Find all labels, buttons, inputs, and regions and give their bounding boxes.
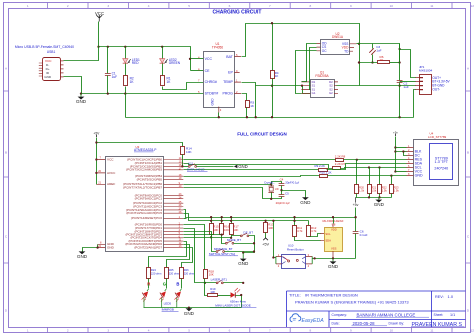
wire rail to C1 xyxy=(107,47,109,74)
junction sw bus 1 xyxy=(253,242,255,244)
junction C3 R6 row xyxy=(371,61,373,63)
svg-text:1.5k: 1.5k xyxy=(371,189,377,193)
svg-text:8: 8 xyxy=(310,4,312,8)
wire R6 to C2 col xyxy=(390,62,400,64)
switch MINNAKE_BT xyxy=(216,249,224,253)
U10 inner contacts xyxy=(283,257,298,262)
junction laser row xyxy=(204,282,206,284)
LED LED2 green xyxy=(160,59,168,64)
wire PB3 to R9 xyxy=(184,169,319,171)
wire U1 gnd to rail xyxy=(218,113,220,118)
svg-text:VCC: VCC xyxy=(107,158,114,162)
svg-text:10K: 10K xyxy=(186,150,192,154)
svg-text:VSS: VSS xyxy=(331,247,337,251)
svg-text:AREF: AREF xyxy=(107,182,115,186)
svg-text:8: 8 xyxy=(310,329,312,333)
svg-text:7: 7 xyxy=(269,4,271,8)
border row letters xyxy=(5,67,470,313)
wire lcd blk link xyxy=(396,152,407,156)
wire R11 top xyxy=(294,218,296,226)
junction +5V R14 xyxy=(95,141,97,143)
wire VSS row to C2 col xyxy=(360,44,400,63)
svg-text:USB1: USB1 xyxy=(47,50,56,54)
wire R15 top xyxy=(211,218,213,224)
junction sw1 col xyxy=(210,236,212,238)
junction R4 S1 row xyxy=(271,85,273,87)
svg-text:GND: GND xyxy=(300,200,311,205)
svg-text:MX61004: MX61004 xyxy=(419,68,433,72)
switch U10 Reset Button xyxy=(282,255,306,269)
label IMMRGB xyxy=(162,307,179,311)
junction U10 right xyxy=(313,257,315,259)
IC U3 ATMEGA328-P xyxy=(106,157,164,252)
svg-text:+5V: +5V xyxy=(93,131,100,135)
svg-text:11: 11 xyxy=(430,329,433,333)
wire VCC rail xyxy=(99,47,191,71)
wire C1 to gnd rail xyxy=(107,76,109,94)
wire S1 row xyxy=(256,85,303,87)
U10 pin bars xyxy=(276,256,312,264)
wire R15 bot stub xyxy=(211,235,213,238)
junction R4 gnd rail xyxy=(271,116,273,118)
wire +5V column xyxy=(96,138,98,185)
junction AVCC row xyxy=(95,172,97,174)
resistor R26 xyxy=(180,268,184,279)
svg-text:10K: 10K xyxy=(213,228,218,232)
label DATA_HOLD xyxy=(187,167,208,171)
svg-text:220 ohm: 220 ohm xyxy=(184,272,195,276)
wire into U1 VCC xyxy=(191,58,204,60)
svg-text:4: 4 xyxy=(148,329,150,333)
svg-text:0.1uF: 0.1uF xyxy=(360,233,368,237)
ground stub leds xyxy=(188,307,190,310)
wire R16 bot stub xyxy=(221,234,223,236)
resistor R17 xyxy=(230,224,234,235)
resistor R1 xyxy=(161,76,165,86)
svg-text:240*240: 240*240 xyxy=(434,167,448,171)
svg-text:+5v: +5v xyxy=(353,203,359,207)
wire lcd res gnd rail xyxy=(356,197,392,199)
svg-text:10K: 10K xyxy=(233,228,238,232)
U10 pin stubs xyxy=(276,256,312,264)
wire mid gnd rail xyxy=(82,93,204,95)
junction led gnd xyxy=(188,307,190,309)
wire C4 to mid xyxy=(281,186,283,195)
wire R17 bot stub xyxy=(232,235,241,238)
junction rail LED2 xyxy=(161,46,163,48)
junction lcd vcc row xyxy=(394,170,396,172)
resistor R13 xyxy=(264,223,268,233)
wire rail to LED1 xyxy=(125,47,127,59)
svg-text:5: 5 xyxy=(188,329,190,333)
wire PC6 stub xyxy=(184,218,187,220)
junction VCC pin xyxy=(189,58,191,60)
wire LED1 to R2 xyxy=(125,64,127,76)
junction VSS bat rail xyxy=(358,43,360,45)
IC U8 MLX90614ESF xyxy=(325,228,343,252)
wire C2 bottom xyxy=(399,83,401,118)
LED red element xyxy=(142,289,149,308)
svg-text:RED: RED xyxy=(132,61,139,65)
svg-text:4.7k: 4.7k xyxy=(311,229,317,233)
power flag VCC xyxy=(95,11,104,22)
switch C/F_BT xyxy=(240,233,248,237)
title block texts xyxy=(289,293,462,328)
junction laser out xyxy=(240,294,242,296)
wire B- long xyxy=(360,85,416,87)
svg-text:2.2K R7: 2.2K R7 xyxy=(335,162,346,166)
U3 right pin names xyxy=(123,157,162,249)
connector USB1 xyxy=(43,58,61,81)
wire R11 to SDA xyxy=(295,237,321,241)
svg-text:PRAVEEN KUMAR S: PRAVEEN KUMAR S xyxy=(412,322,463,328)
power flag +5v lcd rail xyxy=(353,197,359,207)
wire reset col xyxy=(274,221,276,258)
wire CS to Q1 xyxy=(310,48,317,90)
svg-text:R26: R26 xyxy=(184,268,189,272)
svg-text:EP: EP xyxy=(228,70,233,74)
junction U8 gnd xyxy=(332,257,334,259)
wire S1 to Q1 lower xyxy=(303,86,311,94)
USB1 shield comb pins xyxy=(39,63,43,76)
wire R22 column xyxy=(379,168,381,185)
wire C3 down xyxy=(372,55,374,63)
wire R14 feed xyxy=(97,143,183,147)
svg-text:PRAVEEN KUMAR S (ENGINEER TRAI: PRAVEEN KUMAR S (ENGINEER TRAINEE) +91 9… xyxy=(295,300,409,305)
svg-text:10K: 10K xyxy=(268,226,273,230)
junction R16 rail1 xyxy=(221,216,223,218)
junction VCC row xyxy=(95,158,97,160)
svg-text:TITLE:: TITLE: xyxy=(289,293,301,298)
U3 left pin numbers xyxy=(98,157,102,248)
wire rail1 end xyxy=(355,208,357,232)
svg-text:PROG: PROG xyxy=(222,92,233,96)
wire BAT rail xyxy=(242,24,360,86)
svg-text:IR THERMOMETER DESIGN: IR THERMOMETER DESIGN xyxy=(305,293,358,298)
svg-text:GND: GND xyxy=(238,261,249,266)
wire OUT- down xyxy=(414,90,416,118)
svg-text:6: 6 xyxy=(229,329,231,333)
svg-text:Sheet:: Sheet: xyxy=(434,313,444,317)
svg-text:MODE_BT: MODE_BT xyxy=(227,238,241,242)
wire R12 to SCL xyxy=(309,234,321,237)
junction sw bus 2 xyxy=(253,250,255,252)
svg-text:GND: GND xyxy=(238,164,248,169)
svg-text:2: 2 xyxy=(67,329,69,333)
wire USB VCC to rail xyxy=(64,47,99,61)
svg-text:FULL CIRCUIT DESIGN: FULL CIRCUIT DESIGN xyxy=(237,132,286,137)
junction R17 rail2 xyxy=(230,220,232,222)
svg-text:TEMP: TEMP xyxy=(223,80,233,84)
wire laser sw right xyxy=(224,282,244,284)
svg-text:LASER_BT1: LASER_BT1 xyxy=(211,278,228,282)
junction R14 PB2 xyxy=(181,165,183,167)
svg-text:C/F_BT: C/F_BT xyxy=(243,230,253,234)
svg-text:R10 2.2K: R10 2.2K xyxy=(320,171,332,175)
svg-text:1.3′ TFT: 1.3′ TFT xyxy=(435,160,449,164)
wire R1 to CHRG xyxy=(163,83,204,90)
wire laser col down xyxy=(205,283,208,296)
wire R23 bottom xyxy=(391,194,393,198)
svg-text:SCL: SCL xyxy=(325,232,331,236)
svg-text:GND: GND xyxy=(77,254,88,259)
U1 left pin names xyxy=(205,57,219,95)
wire R2 to gnd rail xyxy=(125,87,127,94)
USB1 pin names xyxy=(44,59,52,79)
svg-text:MINI LASER DOT DIODE: MINI LASER DOT DIODE xyxy=(215,303,251,307)
svg-text:1.5k: 1.5k xyxy=(359,189,365,193)
svg-text:1/1: 1/1 xyxy=(450,313,455,317)
ground flag below USB xyxy=(80,94,82,97)
svg-text:AVCC: AVCC xyxy=(107,171,116,175)
svg-text:C5: C5 xyxy=(285,191,289,195)
svg-text:GND: GND xyxy=(328,264,339,269)
power flag +5v lcd xyxy=(393,130,398,136)
svg-text:(PCINT5/SCK)PB5: (PCINT5/SCK)PB5 xyxy=(137,177,163,181)
resistor R11 xyxy=(293,226,297,237)
svg-text:U9: U9 xyxy=(275,187,279,191)
wire PD to R24 xyxy=(149,242,187,268)
resistor R7 xyxy=(333,167,341,170)
wire R23 column xyxy=(391,176,393,185)
svg-text:(PCINT3/OC2A/MOSI)PB3: (PCINT3/OC2A/MOSI)PB3 xyxy=(126,168,162,172)
resistor R2 xyxy=(124,76,128,86)
svg-text:(PCINT13/SCL/ADC5)PC5: (PCINT13/SCL/ADC5)PC5 xyxy=(126,211,162,215)
wire PB7 to crystal bot xyxy=(184,188,272,199)
resistor R19 xyxy=(208,294,218,297)
junction R2 gnd xyxy=(124,92,126,94)
junction +5v mlx xyxy=(354,216,356,218)
junction crystal bottom xyxy=(270,198,272,200)
capacitor C5 xyxy=(279,195,285,197)
svg-text:CHRG#: CHRG# xyxy=(205,80,217,84)
wire PD2 to sw1 col xyxy=(184,232,217,252)
svg-text:3: 3 xyxy=(107,329,109,333)
U8 pin names xyxy=(325,228,336,251)
wire R4 bottom xyxy=(272,79,274,118)
resistor R21 xyxy=(368,185,372,194)
junction USB GND xyxy=(80,92,82,94)
wire R17 top xyxy=(231,218,233,224)
junction R4 bat rail xyxy=(271,22,273,24)
Q1 pin stubs xyxy=(301,82,338,93)
wire U8 vdd up xyxy=(333,218,335,224)
label SWITCH-SPST xyxy=(209,252,238,256)
LCD screen text xyxy=(434,156,448,170)
resistor R14 xyxy=(181,147,185,155)
junction U3 gnd xyxy=(96,246,98,248)
IC U1 TP4056 xyxy=(204,52,235,108)
svg-text:Drawn By:: Drawn By: xyxy=(389,321,405,325)
wire PD to R25 xyxy=(167,245,190,268)
wire R13 bottom xyxy=(265,233,267,239)
U1 right pin names xyxy=(222,55,233,96)
U10 pin numbers xyxy=(278,253,310,268)
resistor R15 xyxy=(210,224,214,235)
resistor R18 xyxy=(204,270,208,279)
junction bat rail VSS xyxy=(358,61,360,63)
svg-text:TP4056: TP4056 xyxy=(212,46,223,50)
resistor R22 xyxy=(378,185,382,194)
wire PD4 to sw3 col xyxy=(184,237,232,239)
wire C3 top xyxy=(372,44,374,49)
U10 pin brackets xyxy=(282,256,306,264)
IC U2 DW01A xyxy=(321,40,350,55)
wire gnd rail drop xyxy=(125,94,127,118)
power flag +5V mcu xyxy=(93,131,100,137)
svg-text:4: 4 xyxy=(148,4,150,8)
junction U1 gnd rail xyxy=(218,116,220,118)
wire R21 bottom xyxy=(369,194,371,198)
junction laser sw xyxy=(242,282,244,284)
junction rail C1 xyxy=(107,46,109,48)
wire LED2 to R1 xyxy=(162,64,164,76)
junction lcd blk row xyxy=(394,150,396,152)
junction reset left xyxy=(272,256,274,258)
module U4 LCD outer xyxy=(414,140,459,186)
resistor R23 xyxy=(390,185,394,194)
junction R15 rail1 xyxy=(210,216,212,218)
wire VSS to rail xyxy=(357,43,360,45)
junction C2 rail xyxy=(398,116,400,118)
junction R3 rail xyxy=(246,116,248,118)
svg-text:20pF/0.1μf: 20pF/0.1μf xyxy=(285,180,299,184)
ground LCD GND xyxy=(374,200,385,208)
U3 left pin stubs xyxy=(96,160,105,248)
svg-text:1: 1 xyxy=(27,4,29,8)
U1 gnd pin stub xyxy=(218,107,220,113)
wire +5v lcd column xyxy=(395,137,397,172)
svg-text:ATMEGA328-P: ATMEGA328-P xyxy=(134,148,157,152)
wire switch to GND flag xyxy=(197,166,234,168)
junction cap mid xyxy=(280,189,282,191)
svg-text:R24: R24 xyxy=(151,268,156,272)
ground flag DATA_HOLD xyxy=(234,164,248,169)
svg-text:G1: G1 xyxy=(312,91,316,95)
junction TEMP rail xyxy=(255,116,257,118)
wire R20 column xyxy=(356,160,358,185)
svg-text:+5v: +5v xyxy=(393,130,398,134)
capacitor C4 xyxy=(279,184,285,186)
wire C6 bottom xyxy=(355,234,357,259)
wire led bottom rail xyxy=(144,307,242,309)
svg-text:2.2K R8: 2.2K R8 xyxy=(335,154,346,158)
wire PD to R26 xyxy=(182,248,193,268)
ground stub U8 xyxy=(332,258,334,261)
junction lcd gnd 2 xyxy=(378,196,380,198)
capacitor C2 xyxy=(397,81,403,83)
wire R16 top xyxy=(221,218,223,224)
wire R8 to LCD RES xyxy=(344,159,407,161)
wire U10 right to gnd net xyxy=(313,258,356,260)
svg-text:Date:: Date: xyxy=(332,321,340,325)
U4 pin numbers xyxy=(408,145,410,176)
svg-text:10K: 10K xyxy=(210,290,215,294)
wire R12 top xyxy=(308,221,310,226)
ground stub switches xyxy=(242,253,244,259)
wire U3 gnd link xyxy=(83,245,98,252)
label MINI LASER DOT DIODE xyxy=(210,303,257,307)
module U4 LCD screen xyxy=(430,144,453,180)
svg-text:SDA: SDA xyxy=(325,238,331,242)
logo EasyEDA xyxy=(290,314,324,324)
svg-text:REV:: REV: xyxy=(435,295,444,299)
wire sw2 right xyxy=(234,243,255,245)
capacitor C1 xyxy=(105,74,111,76)
LED blue element xyxy=(174,289,181,308)
wire BT+ to C2 xyxy=(400,81,416,83)
wire R6 row left xyxy=(360,62,378,64)
svg-text:SWITCH-SPST (TH): SWITCH-SPST (TH) xyxy=(209,252,235,256)
svg-text:7: 7 xyxy=(269,329,271,333)
Q1 pin names xyxy=(312,80,334,95)
svg-text:C4: C4 xyxy=(280,177,284,181)
svg-text:TD: TD xyxy=(344,49,349,53)
junction lcd gnd 1 xyxy=(368,196,370,198)
U3 right pin numbers xyxy=(179,157,182,248)
wire R20 bottom xyxy=(356,194,358,198)
svg-text:LCD_ST7789: LCD_ST7789 xyxy=(428,135,447,139)
resistor R12 xyxy=(307,226,311,237)
svg-text:1uF: 1uF xyxy=(112,75,118,79)
capacitor C6 xyxy=(353,232,359,234)
resistor R9 xyxy=(319,169,328,172)
svg-text:B: B xyxy=(467,151,469,155)
title block underlines xyxy=(352,317,465,326)
junction R23 tap xyxy=(390,175,392,177)
junction S1 Q1 xyxy=(301,85,303,87)
U8 pin stubs xyxy=(320,223,333,258)
junction sw2 col xyxy=(221,233,223,235)
svg-text:GND: GND xyxy=(184,311,195,316)
JP1 inner pin marks xyxy=(419,78,423,90)
svg-text:GND: GND xyxy=(210,98,214,106)
svg-text:MINNAKE_BT: MINNAKE_BT xyxy=(214,247,233,251)
wire into U1 CE xyxy=(191,70,204,72)
svg-text:B: B xyxy=(5,151,7,155)
svg-text:(PCINT9/ADC1)PC1: (PCINT9/ADC1)PC1 xyxy=(135,197,163,201)
svg-text:9: 9 xyxy=(350,329,352,333)
ground crystal GND xyxy=(300,197,311,205)
wire R14 to PB2 row xyxy=(182,155,184,167)
ground stub lcd xyxy=(378,197,380,199)
border row ticks xyxy=(4,91,471,263)
svg-text:11: 11 xyxy=(430,4,433,8)
wire rail to LED2 xyxy=(162,47,164,59)
U4 pin stubs xyxy=(406,148,413,176)
label U3 value xyxy=(134,148,157,152)
svg-text:5: 5 xyxy=(188,4,190,8)
title block grid xyxy=(287,291,466,327)
svg-text:U11: U11 xyxy=(188,161,193,165)
svg-text:220 ohm: 220 ohm xyxy=(151,272,162,276)
svg-text:Micro USB-B 5P-Female-SMT_C409: Micro USB-B 5P-Female-SMT_C40940 xyxy=(15,45,74,49)
JP1 pin texts xyxy=(432,76,450,92)
svg-text:220 ohm: 220 ohm xyxy=(169,272,180,276)
svg-text:VCC: VCC xyxy=(205,57,213,61)
svg-text:GND: GND xyxy=(44,75,52,79)
svg-text:G2: G2 xyxy=(329,91,333,95)
wire R3 to rail xyxy=(246,108,248,118)
svg-text:1K: 1K xyxy=(275,74,279,78)
ground LEDs GND xyxy=(184,308,195,316)
svg-text:CE: CE xyxy=(205,69,211,73)
wire C5 bottom xyxy=(272,197,282,199)
wire PC5 rail2 xyxy=(184,214,309,221)
transistor Q1 FS8205A xyxy=(311,80,335,98)
svg-text:(PCINT14/RESET)PC6: (PCINT14/RESET)PC6 xyxy=(131,216,162,220)
resistor R24 xyxy=(147,268,151,279)
